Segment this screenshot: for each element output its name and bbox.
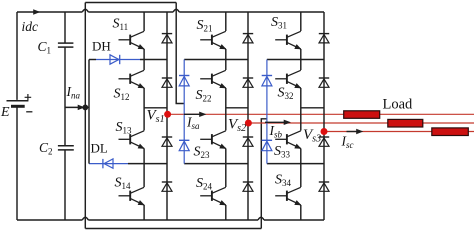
wire: leg2 S23/S24 junction [184,163,248,165]
diode D31 (antiparallel) [319,33,329,35]
leg 1 transistor column wire [143,12,145,220]
transistor S21 [212,31,226,37]
clamp diode DL (blue) [89,163,128,165]
leg 2 freewheeling diode column wire [247,12,249,220]
diode D21 (antiparallel) [243,33,253,35]
wire: leg-c neutral riser [261,119,267,229]
wire hop: neutral over top rail [82,9,88,12]
node Vs3 (red dot) [321,128,328,135]
svg-text:S31: S31 [271,15,287,31]
wire: phase b output (red) [248,122,474,124]
battery plus sign [25,94,32,101]
svg-text:S24: S24 [196,176,213,192]
wire: leg3 S31/S32 junction [267,59,324,61]
svg-text:S14: S14 [115,176,132,192]
svg-text:Vs2: Vs2 [228,116,246,134]
svg-text:DH: DH [92,38,111,53]
svg-text:Isc: Isc [341,134,354,151]
wire: leg2 S21/S22 junction [184,59,248,61]
svg-text:S22: S22 [196,88,212,104]
svg-text:S12: S12 [114,87,130,103]
wire: neutral top link [85,2,176,4]
node: neutral junction dot [82,105,88,111]
diode D34 (antiparallel) [319,181,329,183]
svg-text:Ina: Ina [66,84,81,101]
transistor S14 [130,187,144,193]
diode D13 (antiparallel) [162,136,172,138]
transistor S31 [287,31,301,37]
current Isa arrow [184,113,201,115]
leg 1 freewheeling diode column wire [166,12,168,220]
svg-text:C1: C1 [38,39,52,56]
transistor S12 [130,70,144,76]
wire: leg1 clamp vertical [88,60,90,164]
load resistor phase b (red box) [388,119,423,127]
svg-text:S32: S32 [278,86,294,102]
transistor S22 [212,70,226,76]
svg-text:E: E [0,105,10,120]
leg 2 transistor column wire [225,12,227,220]
diode D14 (antiparallel) [162,181,172,183]
svg-text:S11: S11 [113,17,129,33]
transistor S11 [130,31,144,37]
wire: neutral vertical bus [84,3,86,229]
transistor S23 [212,131,226,137]
svg-text:C2: C2 [39,140,53,157]
capacitor C1 [58,42,74,44]
wire: C1-C2 midpoint lead [64,48,66,146]
transistor S33 [287,131,301,137]
diode D12 (antiparallel) [162,77,172,79]
wire: leg-b neutral riser [176,3,184,104]
diode D32 (antiparallel) [319,77,329,79]
node Vs2 (red dot) [245,120,252,127]
diode D23 (antiparallel) [243,136,253,138]
node Vs1 (red dot) [164,111,171,118]
wire: bottom DC- rail [17,219,324,221]
wire: source negative lead [16,107,18,220]
clamp diode column leg 3 (blue) [266,60,268,164]
wire hop: leg-b neutral riser over top rail [173,9,179,12]
svg-text:S23: S23 [194,145,211,161]
wire: C1 top lead [64,12,66,43]
svg-text:S13: S13 [116,120,133,136]
wire: top DC+ rail [17,11,324,13]
current Isc arrow [347,131,359,133]
svg-text:S34: S34 [275,173,292,189]
diode D22 (antiparallel) [243,77,253,79]
wire hop: neutral over bottom rail [82,217,88,220]
leg 3 freewheeling diode column wire [323,12,325,220]
wire: phase c output (red) [324,131,474,133]
battery E [7,100,29,102]
transistor S32 [287,70,301,76]
transistor S24 [212,187,226,193]
transistor S13 [130,131,144,137]
clamp diode DH (blue) [96,59,140,61]
svg-text:Vs1: Vs1 [147,108,165,126]
svg-text:idc: idc [22,19,39,34]
svg-text:S21: S21 [197,18,213,34]
current Ina arrow [78,105,84,110]
wire: leg3 output junction [301,107,324,109]
wire: capacitor midpoint to neutral [65,106,89,108]
wire: leg1 S11/S12 junction + clamp DH path [89,59,96,61]
wire: leg2 output junction [226,107,248,109]
current Isb arrow [265,121,286,123]
svg-text:S33: S33 [274,144,291,160]
wire: phase a output (red) [168,113,474,115]
transistor S34 [287,187,301,193]
wire: source positive lead [16,12,18,100]
svg-text:Isa: Isa [186,115,200,132]
capacitor C2 [58,145,74,147]
wire: C2 bottom lead [64,151,66,221]
wire hop: leg-c neutral riser over bottom rail [258,217,264,220]
svg-text:Vs3: Vs3 [303,127,321,145]
current idc arrow on top rail [34,10,40,15]
diode D24 (antiparallel) [243,181,253,183]
battery minus sign [26,111,32,113]
leg 3 transistor column wire [300,12,302,220]
wire: leg3 S33/S34 junction [267,163,324,165]
clamp diode column leg 2 (blue) [183,60,185,164]
diode D33 (antiparallel) [319,136,329,138]
load resistor phase a (red box) [344,111,380,119]
svg-text:Load: Load [383,96,414,112]
load resistor phase c (red box) [432,128,469,136]
wire: leg1 output junction [144,107,167,109]
svg-text:DL: DL [91,140,108,155]
svg-text:Isb: Isb [269,123,283,140]
wire: leg1 S13/S14 junction + clamp DL path [128,163,167,165]
diode D11 (antiparallel) [162,33,172,35]
wire: neutral bottom link [85,228,261,230]
